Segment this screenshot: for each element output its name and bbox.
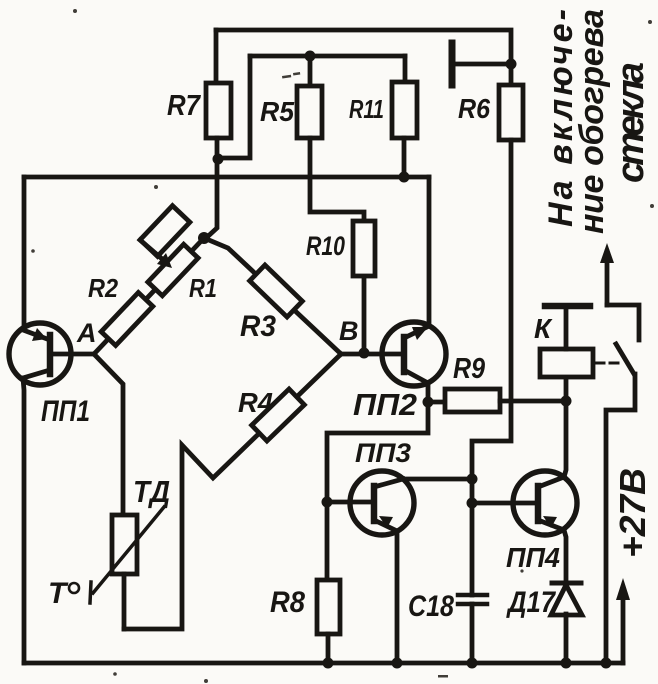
svg-text:А: А <box>76 318 97 348</box>
wire PP2 collector riser <box>427 177 432 326</box>
wire bridge arm B down to V-corner and riser <box>124 354 341 629</box>
PP3 base wire <box>327 500 372 505</box>
resistor R9 <box>445 389 500 412</box>
svg-text:R11: R11 <box>349 94 384 124</box>
svg-text:R10: R10 <box>306 231 345 261</box>
wire main rail <box>24 175 429 180</box>
wire R6 top lead <box>509 64 514 85</box>
resistor R2 <box>101 293 153 346</box>
switch blade <box>616 344 634 374</box>
svg-text:R8: R8 <box>270 586 305 619</box>
PP3 base bar <box>371 486 378 521</box>
wire second rail left elbow to R7 bottom <box>220 56 250 158</box>
svg-text:ТД: ТД <box>133 474 170 509</box>
wire D17 bottom lead <box>564 614 569 663</box>
svg-text:R5: R5 <box>260 96 294 127</box>
node junction R10 bottom <box>359 348 370 359</box>
node bridge top <box>198 232 210 244</box>
terminal bar top right <box>449 43 456 85</box>
node junction PP3 emitter on bottom rail <box>392 658 403 669</box>
wire R11 top lead <box>403 56 408 82</box>
svg-text:R1: R1 <box>189 273 217 303</box>
diode D17 cathode bar <box>552 581 581 586</box>
PP4 emitter arrow <box>543 516 557 528</box>
PP4 base wire <box>472 501 536 506</box>
PP4 base bar <box>535 486 542 521</box>
wire bottom rail <box>24 661 623 666</box>
node junction PP3 base <box>322 497 333 508</box>
wire C18 bottom lead <box>470 604 475 663</box>
svg-text:R6: R6 <box>458 93 490 124</box>
transistor PP3 <box>350 471 414 535</box>
svg-text:В: В <box>339 316 359 346</box>
relay K dashed linkage <box>596 362 620 365</box>
node junction PP4 base / column <box>467 498 478 509</box>
switch upper fixed contact <box>607 305 639 340</box>
svg-text:R9: R9 <box>453 353 485 385</box>
potentiometer body R1 upper box <box>140 206 190 257</box>
svg-text:стекла: стекла <box>610 62 652 183</box>
PP2 collector lead <box>404 326 429 338</box>
capacitor C18 top plate <box>458 593 487 598</box>
transistor PP4 <box>513 471 577 535</box>
thermistor TD strike line <box>90 507 164 603</box>
node junction D17 on bottom rail <box>561 658 572 669</box>
wire R5 bottom / elbow to R10 top <box>310 138 364 221</box>
wire R5 top lead <box>308 56 313 86</box>
resistor R3 <box>250 265 303 317</box>
capacitor C18 bottom plate <box>458 602 487 607</box>
PP4 emitter lead <box>538 520 564 530</box>
wire left edge down to PP1 <box>22 177 27 325</box>
node junction R6 top <box>506 59 517 70</box>
node junction R7-bottom/elbow <box>213 154 224 165</box>
svg-text:Т: Т <box>48 577 69 610</box>
wire R10 bottom lead <box>362 276 367 353</box>
svg-text:R3: R3 <box>240 310 276 343</box>
PP1 lower lead <box>23 370 50 378</box>
PP2 emitter lead <box>404 370 428 402</box>
potentiometer arrow R1 <box>140 240 161 258</box>
wire PP4 collector riser to relay <box>564 377 566 477</box>
relay K coil <box>540 349 593 377</box>
resistor R4 <box>252 389 305 441</box>
relay K top lead <box>564 306 569 349</box>
wire R9 right lead to relay column <box>500 399 566 404</box>
wire R11 bottom lead <box>402 138 407 177</box>
wire R7 bottom to bridge top <box>205 138 217 239</box>
PP3 collector lead <box>374 479 403 487</box>
wire bridge arm top node to B <box>204 238 341 354</box>
resistor R7 <box>206 83 231 138</box>
transistor PP1 <box>9 323 71 385</box>
wire PP3 emitter to bottom rail <box>395 531 400 663</box>
resistor R5 <box>297 86 322 138</box>
PP1 base bar <box>47 335 54 374</box>
wire PP1 down left edge to bottom rail <box>23 378 24 663</box>
svg-text:ние обогрева: ние обогрева <box>573 9 611 234</box>
node junction PP2 emitter / R9 <box>423 397 434 408</box>
thermistor TD <box>112 515 137 574</box>
transistor PP2 <box>382 322 446 386</box>
node junction R11 bottom on main rail <box>399 172 410 183</box>
wire top rail <box>216 30 511 64</box>
wire TD bottom to loop <box>122 574 127 629</box>
wire A down to TD <box>94 354 123 515</box>
node junction R9/relay column <box>561 396 572 407</box>
PP4 collector lead <box>538 477 564 487</box>
PP3 emitter lead <box>374 520 397 531</box>
svg-text:+27В: +27В <box>612 468 653 558</box>
svg-text:R2: R2 <box>88 273 118 303</box>
wire PP4 emitter to diode <box>564 530 566 583</box>
svg-text:Д17: Д17 <box>505 586 556 619</box>
PP1 emitter arrow <box>32 328 47 341</box>
svg-text:R7: R7 <box>167 90 202 122</box>
node junction PP3 collector / column <box>467 474 478 485</box>
wire R8 bottom lead <box>326 634 331 663</box>
PP2 collector arrow <box>412 327 428 340</box>
svg-text:R4: R4 <box>238 387 273 418</box>
PP1 emitter lead <box>23 330 50 340</box>
PP3 collector wire to C18 column <box>403 477 472 482</box>
svg-text:ПП3: ПП3 <box>355 438 411 468</box>
diode D17 triangle <box>551 585 582 615</box>
wire R7 top lead <box>214 30 219 83</box>
svg-text:К: К <box>534 313 553 344</box>
power arrow +27V <box>621 588 626 663</box>
switch contact arrow up <box>605 252 610 305</box>
wire node B to PP2 base <box>341 352 402 357</box>
wire R6 bottom long drop to C18 column <box>472 140 511 595</box>
wire terminal to R6 top <box>452 62 511 67</box>
resistor R10 <box>353 221 375 276</box>
switch lower terminal jog <box>606 374 635 663</box>
resistor R11 <box>392 82 417 138</box>
wire R9 left lead <box>428 400 445 405</box>
node junction switch return on bottom rail <box>601 658 612 669</box>
svg-text:ПП4: ПП4 <box>506 542 560 573</box>
PP1 base wire to node A <box>53 352 94 357</box>
PP3 emitter arrow <box>379 516 393 528</box>
wire PP2 emitter drop and run to PP3 column <box>327 402 428 580</box>
node junction R5 top on second rail <box>305 51 316 62</box>
resistor R1 <box>148 244 198 295</box>
node junction R8 on bottom rail <box>323 658 334 669</box>
node junction C18 on bottom rail <box>467 658 478 669</box>
PP2 base bar <box>401 337 408 372</box>
svg-text:С18: С18 <box>408 590 454 623</box>
svg-text:ПП2: ПП2 <box>353 387 417 422</box>
relay K top terminal bar <box>545 303 590 310</box>
resistor R8 <box>317 580 340 634</box>
wire second rail <box>250 54 405 59</box>
resistor R6 <box>499 85 523 140</box>
wire bridge arm A to top node <box>94 238 204 354</box>
svg-text:ПП1: ПП1 <box>41 395 90 428</box>
